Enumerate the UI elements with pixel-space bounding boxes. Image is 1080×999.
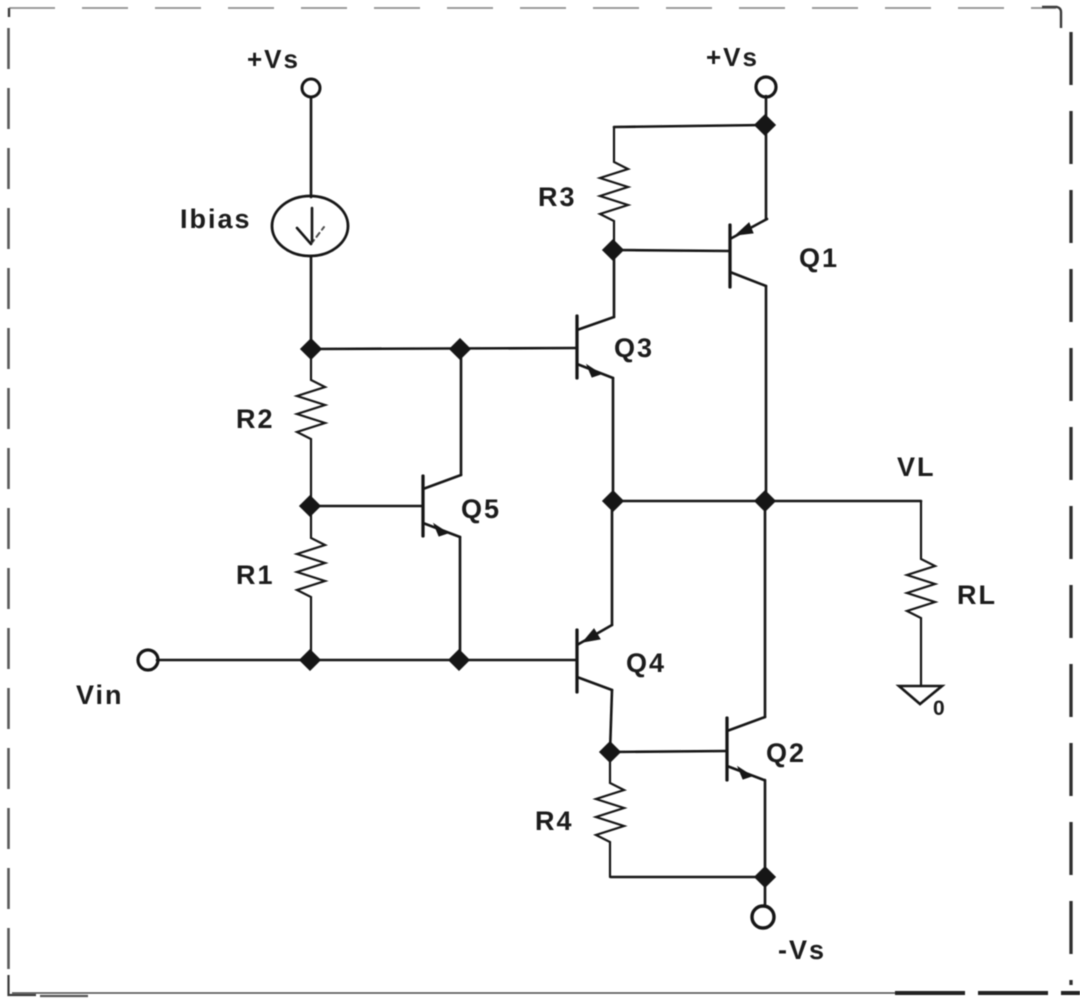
resistor R4 [596, 752, 624, 877]
transistor Q3 [577, 316, 614, 378]
wire [764, 501, 767, 717]
node -Vs rail junction [755, 867, 775, 887]
wire (Q1 base) [613, 250, 730, 251]
svg-text:0: 0 [933, 697, 947, 720]
transistor Q2 [727, 717, 765, 780]
wire [764, 780, 767, 877]
wire [460, 349, 463, 475]
resistor R1 [297, 506, 325, 660]
svg-text:R2: R2 [236, 404, 275, 434]
wire [764, 877, 767, 906]
svg-text:Q2: Q2 [766, 738, 806, 768]
current source Ibias [272, 196, 348, 256]
resistor R3 [600, 127, 628, 250]
terminal -Vs [752, 906, 774, 928]
wire [311, 348, 577, 349]
svg-text:Q3: Q3 [614, 333, 654, 363]
svg-text:Ibias: Ibias [180, 204, 252, 234]
svg-text:R1: R1 [236, 560, 275, 590]
wire [157, 659, 577, 662]
wire [610, 690, 612, 752]
wire [765, 125, 768, 219]
wire [310, 505, 423, 508]
svg-text:Vin: Vin [76, 680, 124, 710]
wire [310, 256, 313, 349]
node A (Ibias / R2 / Q3 base rail) [301, 339, 321, 359]
wire [611, 501, 614, 625]
terminal +Vs right [756, 77, 776, 97]
ground [899, 686, 942, 704]
wire [765, 96, 768, 125]
wire (Q3 emitter to VL) [612, 378, 615, 501]
node Vin / Q5 emitter junction [449, 650, 469, 670]
node B (R2 / R1 / Q5 base) [300, 496, 320, 516]
svg-text:+Vs: +Vs [247, 44, 300, 74]
node VL / Q3-Q4 junction [603, 491, 623, 511]
wire [459, 537, 462, 660]
svg-text:R3: R3 [538, 182, 577, 212]
wire [310, 97, 313, 197]
node +Vs rail junction [755, 115, 775, 135]
svg-text:RL: RL [957, 580, 997, 610]
wire (Q2 base) [610, 751, 727, 752]
svg-text:-Vs: -Vs [778, 935, 826, 965]
wire [613, 250, 616, 317]
resistor R2 [297, 349, 325, 506]
resistor RL [907, 501, 935, 686]
svg-text:Q4: Q4 [626, 648, 666, 678]
node D (Q4 collector / R4 / Q2 base) [600, 742, 620, 762]
node VL / Q1-Q2 junction [755, 491, 775, 511]
node A2 (Q5 collector tap) [450, 339, 470, 359]
transistor Q5 [423, 475, 461, 537]
node Vin / R1 junction [300, 650, 320, 670]
terminal +Vs left [302, 79, 320, 97]
transistor Q4 [577, 625, 612, 692]
wire [611, 876, 765, 879]
transistor Q1 [730, 219, 767, 287]
node C (R3 / Q3 collector / Q1 base) [603, 240, 623, 260]
svg-text:VL: VL [897, 452, 936, 482]
terminal Vin [138, 650, 158, 670]
wire [614, 125, 765, 127]
svg-text:R4: R4 [535, 806, 574, 836]
wire [765, 286, 768, 501]
svg-text:Q5: Q5 [461, 494, 501, 524]
wire (VL rail) [613, 500, 921, 503]
svg-text:Q1: Q1 [799, 243, 839, 273]
svg-text:+Vs: +Vs [706, 42, 759, 72]
